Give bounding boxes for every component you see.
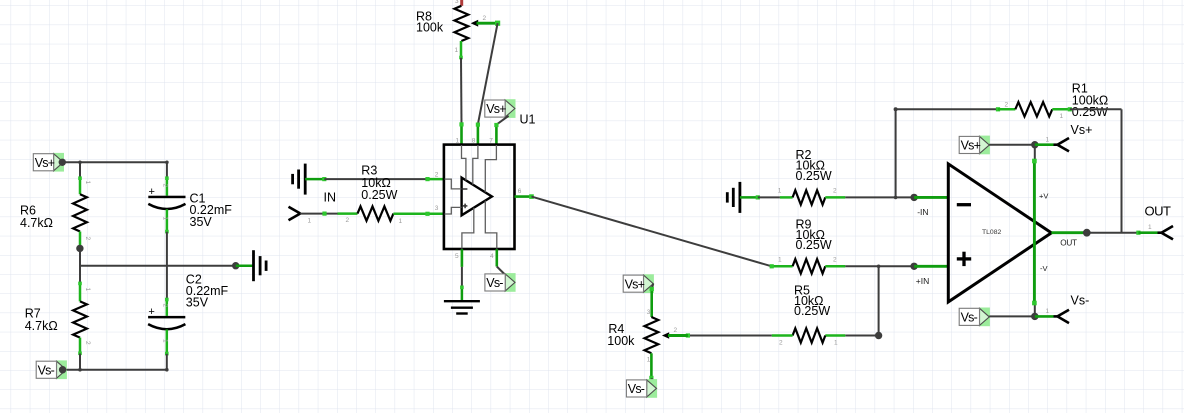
wire R8 wiper to U1 pin8 bbox=[478, 23, 498, 124]
resistor R7 lead top bbox=[79, 283, 82, 301]
wire R3 to U1 pin3 bbox=[393, 213, 444, 216]
wire -V node to fork bbox=[1035, 315, 1054, 318]
svg-text:-IN: -IN bbox=[917, 207, 928, 217]
potentiometer R4 lead bottom bbox=[650, 353, 653, 378]
resistor R3 lead left bbox=[338, 212, 358, 215]
wire R1 to OUT corner bbox=[1070, 108, 1122, 110]
junction dot mid rail to ground bbox=[232, 262, 239, 269]
TL082 supply rail green pins bbox=[1033, 160, 1036, 304]
op-amp U1 internal wire pin5 bbox=[462, 208, 474, 249]
wire ground to R2 bbox=[740, 196, 758, 199]
svg-text:2: 2 bbox=[1005, 102, 1009, 109]
svg-text:3: 3 bbox=[455, 0, 459, 5]
svg-text:6: 6 bbox=[518, 188, 522, 195]
svg-text:2: 2 bbox=[435, 171, 439, 178]
resistor R5 lead right bbox=[825, 334, 845, 337]
connector OUT fork bbox=[1158, 231, 1162, 234]
svg-text:1: 1 bbox=[778, 188, 782, 195]
resistor R7 lead bottom bbox=[79, 338, 82, 354]
svg-text:2: 2 bbox=[779, 340, 783, 347]
resistor R6 lead bottom bbox=[79, 232, 82, 249]
svg-text:Vs-: Vs- bbox=[486, 276, 503, 290]
capacitor C2 plate bbox=[148, 316, 185, 319]
resistor R7 zigzag bbox=[73, 301, 87, 337]
wire Vs- flag to -V node bbox=[989, 315, 1035, 317]
svg-text:100k: 100k bbox=[416, 21, 444, 35]
svg-text:1: 1 bbox=[161, 339, 168, 343]
svg-text:1: 1 bbox=[84, 288, 91, 292]
capacitor C1 lead top bbox=[166, 178, 169, 196]
junction dot -IN bbox=[910, 194, 917, 201]
svg-text:1: 1 bbox=[456, 137, 460, 144]
svg-text:Vs+: Vs+ bbox=[486, 102, 506, 116]
wire Vs+ to R6 bbox=[79, 162, 81, 178]
wire Vs+ flag to R4 bbox=[652, 284, 654, 289]
svg-text:OUT: OUT bbox=[1145, 204, 1172, 219]
svg-text:7: 7 bbox=[489, 137, 493, 144]
wire R1 feedback top bbox=[896, 108, 998, 110]
wire -IN to TL082 bbox=[914, 196, 948, 199]
resistor R1 lead left bbox=[998, 108, 1015, 111]
svg-text:IN: IN bbox=[324, 191, 337, 205]
svg-text:0.25W: 0.25W bbox=[794, 304, 830, 318]
svg-text:35V: 35V bbox=[190, 215, 213, 229]
svg-text:2: 2 bbox=[84, 341, 91, 345]
capacitor C2 lead top bbox=[166, 299, 169, 316]
wire R1 feedback left vertical bbox=[894, 107, 898, 111]
op-amp U1 internal wire pin7 bbox=[485, 145, 496, 192]
svg-text:Vs+: Vs+ bbox=[35, 156, 55, 170]
resistor R2 lead left bbox=[780, 196, 793, 199]
junction dot Vs+ node bbox=[59, 159, 66, 166]
resistor R3 zigzag bbox=[358, 206, 394, 220]
capacitor C1 lead bottom bbox=[166, 209, 169, 232]
wire top rail Vs+ bbox=[62, 161, 167, 163]
resistor R1 lead right bbox=[1052, 108, 1070, 111]
op-amp U1 pin4 stub bbox=[495, 249, 498, 266]
wire bottom rail Vs- bbox=[63, 369, 167, 371]
junction dot -V bbox=[1031, 313, 1038, 320]
bendpoint at R6 branch bbox=[78, 161, 82, 165]
net flag Vs- at R4 bbox=[646, 379, 657, 398]
svg-text:Vs+: Vs+ bbox=[1071, 123, 1093, 137]
op-amp U1 pin6 output stub bbox=[515, 195, 532, 198]
wire TL082 output bbox=[1051, 231, 1085, 234]
junction dot Vs- node bbox=[59, 366, 66, 373]
svg-text:3: 3 bbox=[647, 309, 651, 316]
op-amp TL082 triangle bbox=[948, 164, 1051, 302]
resistor R5 lead left bbox=[772, 334, 793, 337]
op-amp U1 internal wire pin4 bbox=[485, 201, 497, 249]
capacitor C2 curved plate bbox=[148, 324, 185, 329]
resistor R8 lead bottom bbox=[460, 41, 463, 58]
net flag Vs- at U1 bbox=[505, 273, 516, 292]
op-amp U1 pin7 stub bbox=[495, 125, 498, 145]
svg-text:U1: U1 bbox=[520, 113, 536, 127]
svg-text:2: 2 bbox=[833, 257, 837, 264]
svg-text:8: 8 bbox=[472, 137, 476, 144]
wire U1 pin4 to Vs- flag bbox=[497, 267, 513, 283]
svg-text:2: 2 bbox=[346, 217, 350, 224]
op-amp U1 pin5 stub bbox=[461, 249, 464, 267]
svg-text:Vs-: Vs- bbox=[1071, 294, 1090, 308]
resistor R5 zigzag bbox=[793, 328, 826, 342]
svg-text:4: 4 bbox=[490, 253, 494, 260]
wire ground to U1 pin2 bbox=[305, 178, 324, 181]
wire U1 pin6 to R9 bbox=[532, 197, 772, 267]
wire R7 to Vs- rail bbox=[79, 354, 81, 370]
minus sign U1 bbox=[463, 188, 468, 190]
svg-text:0.25W: 0.25W bbox=[1072, 105, 1108, 119]
svg-text:5: 5 bbox=[455, 253, 459, 260]
wire R8 to U1 pin1 bbox=[460, 58, 463, 124]
svg-text:1: 1 bbox=[84, 181, 91, 185]
bendpoint at C1 branch bbox=[165, 161, 169, 165]
potentiometer R4 wiper arrow bbox=[662, 332, 669, 338]
svg-text:Vs-: Vs- bbox=[961, 311, 978, 325]
svg-text:2: 2 bbox=[162, 184, 169, 188]
svg-text:1: 1 bbox=[1148, 224, 1152, 231]
svg-text:Vs+: Vs+ bbox=[961, 139, 981, 153]
svg-text:4.7kΩ: 4.7kΩ bbox=[20, 216, 53, 230]
resistor R9 lead right bbox=[825, 265, 845, 268]
svg-text:1: 1 bbox=[1046, 308, 1050, 315]
wire Vs+ flag to U1 pin7 bbox=[497, 116, 509, 125]
svg-text:1: 1 bbox=[162, 217, 169, 221]
op-amp U1 internal wire pin1 bbox=[462, 145, 466, 180]
junction dot +V bbox=[1031, 141, 1038, 148]
connector Vs+ fork bbox=[1054, 143, 1058, 146]
wire R5 right lead to node bbox=[845, 335, 878, 337]
svg-text:1: 1 bbox=[308, 218, 312, 225]
junction dot R5 right bbox=[875, 332, 882, 339]
TL082 supply rail -V wire bbox=[1034, 304, 1036, 317]
svg-text:2: 2 bbox=[84, 237, 91, 241]
capacitor C1 curved plate bbox=[148, 204, 185, 209]
wire OUT to connector bbox=[1087, 232, 1139, 234]
svg-text:OUT: OUT bbox=[1060, 239, 1077, 248]
plus sign TL082 bbox=[957, 257, 971, 260]
op-amp U1 triangle bbox=[462, 178, 492, 216]
junction dot R6-R7 node bbox=[76, 245, 83, 252]
svg-text:100k: 100k bbox=[607, 334, 635, 348]
svg-text:TL082: TL082 bbox=[982, 229, 1001, 236]
net flag Vs+ (left supply) bbox=[53, 153, 64, 172]
resistor R6 lead top bbox=[79, 178, 82, 194]
net flag Vs- at TL082 bbox=[979, 308, 990, 327]
potentiometer R8 top pin red unconnected bbox=[460, 0, 463, 6]
resistor R2 lead right bbox=[825, 196, 845, 199]
op-amp U1 internal wire pin8 bbox=[473, 145, 478, 185]
svg-text:+V: +V bbox=[1039, 192, 1048, 201]
net flag Vs+ at U1 bbox=[505, 99, 516, 118]
potentiometer R8 zigzag bbox=[455, 6, 469, 41]
op-amp U1 internal wire pin3 non-inverting bbox=[445, 207, 462, 214]
wire +IN to TL082 bbox=[914, 265, 948, 268]
connector Vs- fork bbox=[1054, 315, 1058, 318]
wire R6 to R7 across mid rail bbox=[79, 248, 81, 283]
wire IN to R3 bbox=[300, 213, 337, 215]
op-amp U1 pin8 stub bbox=[477, 124, 480, 145]
potentiometer R8 wiper arrow bbox=[471, 20, 479, 27]
wire +V node to fork bbox=[1035, 143, 1054, 146]
net flag Vs+ at TL082 bbox=[979, 136, 990, 155]
wire mid rail bbox=[80, 265, 236, 267]
svg-text:1: 1 bbox=[399, 218, 403, 225]
op-amp U1 package rectangle bbox=[444, 145, 515, 249]
svg-text:1: 1 bbox=[455, 47, 459, 54]
op-amp U1 internal wire pin2 inverting bbox=[445, 179, 462, 189]
resistor R6 zigzag bbox=[73, 194, 87, 231]
wire R9 to +IN bbox=[845, 265, 914, 267]
ground symbol at R2 bbox=[739, 182, 742, 213]
svg-text:2: 2 bbox=[483, 15, 487, 22]
svg-text:2: 2 bbox=[161, 304, 168, 308]
wire Vs+ rail to C1 bbox=[166, 162, 168, 178]
svg-text:1: 1 bbox=[834, 340, 838, 347]
wire mid rail to ground bbox=[236, 264, 254, 267]
capacitor C1 plate bbox=[148, 196, 185, 199]
svg-text:4.7kΩ: 4.7kΩ bbox=[25, 319, 58, 333]
wire R4 to Vs- flag bbox=[651, 378, 656, 387]
svg-text:Vs-: Vs- bbox=[628, 382, 645, 396]
op-amp U1 pin1 stub bbox=[460, 124, 463, 145]
wire R2 to -IN bbox=[845, 196, 914, 198]
minus sign TL082 bbox=[957, 203, 971, 206]
resistor R1 zigzag bbox=[1015, 102, 1052, 116]
capacitor C2 lead bottom bbox=[166, 330, 169, 354]
wire R9 node to R5 bbox=[878, 266, 880, 335]
plus sign U1 bbox=[463, 205, 468, 207]
junction dot +IN bbox=[910, 263, 917, 270]
svg-text:1: 1 bbox=[1046, 136, 1050, 143]
svg-text:0.25W: 0.25W bbox=[796, 238, 832, 252]
resistor R9 zigzag bbox=[793, 259, 826, 273]
svg-text:3: 3 bbox=[435, 205, 439, 212]
wire R5 to R4 wiper bbox=[688, 335, 772, 337]
svg-text:+IN: +IN bbox=[916, 276, 929, 286]
ground symbol at R3 input bbox=[304, 164, 307, 195]
wire C1 to C2 across mid rail bbox=[166, 232, 168, 299]
svg-text:1: 1 bbox=[778, 257, 782, 264]
svg-text:0.25W: 0.25W bbox=[361, 188, 397, 202]
potentiometer R4 zigzag bbox=[645, 317, 659, 353]
resistor R2 zigzag bbox=[793, 190, 826, 204]
ground symbol left block bbox=[252, 250, 255, 281]
svg-text:1: 1 bbox=[647, 357, 651, 364]
resistor R9 lead left bbox=[772, 265, 793, 268]
svg-text:Vs+: Vs+ bbox=[625, 277, 645, 291]
connector IN chevron bbox=[289, 207, 301, 214]
net flag Vs+ at R4 bbox=[643, 274, 654, 293]
svg-text:0.25W: 0.25W bbox=[796, 169, 832, 183]
svg-text:2: 2 bbox=[833, 188, 837, 195]
svg-text:Vs-: Vs- bbox=[38, 363, 55, 377]
svg-text:-V: -V bbox=[1040, 264, 1048, 273]
wire Vs+ flag to +V node bbox=[989, 144, 1035, 146]
wire U1 pin5 to ground bbox=[461, 267, 463, 288]
ground symbol below U1 bbox=[444, 300, 480, 302]
TL082 supply rail +V wire bbox=[1034, 145, 1036, 161]
junction dot OUT bbox=[1083, 229, 1091, 237]
svg-text:1: 1 bbox=[1060, 113, 1064, 120]
svg-text:2: 2 bbox=[674, 327, 678, 334]
svg-text:35V: 35V bbox=[186, 296, 209, 310]
wire C2 to Vs- rail bbox=[166, 354, 168, 370]
potentiometer R4 lead top bbox=[650, 289, 653, 318]
net flag Vs- (left supply) bbox=[56, 360, 67, 379]
